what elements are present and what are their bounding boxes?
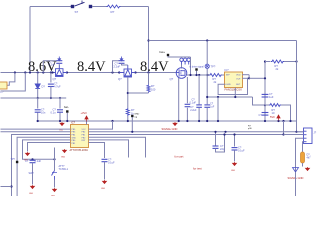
wire R-pulldown to H5 <box>127 116 129 121</box>
junction link x32 <box>31 158 33 160</box>
wire bat+ to coil <box>168 56 173 57</box>
wire cap1 to H4 <box>50 87 52 99</box>
connector J1 pins <box>304 131 307 142</box>
capacitor C-right2 <box>262 113 269 116</box>
capacitor C-br1 <box>213 146 219 148</box>
junction x148 y40 <box>147 39 149 41</box>
resistor R-pulldown <box>126 108 129 116</box>
svg-text:8.4V: 8.4V <box>140 59 169 75</box>
wire Q3 right down <box>186 77 188 103</box>
wire R-M2 bottom lead <box>148 92 150 94</box>
switch SW2 body <box>52 171 58 180</box>
junction pl3 y186 <box>10 185 12 187</box>
wire left edge y186 <box>1 186 12 188</box>
wire y61 branch <box>265 61 271 63</box>
wire 3V3 stub <box>86 122 88 125</box>
wire H2 y40 <box>149 40 297 42</box>
mosfet M1 body <box>53 65 68 77</box>
junction H5 x264 <box>264 120 266 122</box>
capacitor C-mid1 <box>196 105 202 107</box>
mosfet Q3 body <box>176 68 187 79</box>
ground red bl1 <box>31 185 34 188</box>
junction rail1 x215 <box>214 131 216 133</box>
capacitor C-left2 <box>35 110 41 112</box>
fuse F1 body <box>0 82 7 89</box>
svg-text:0.1uF: 0.1uF <box>35 159 42 163</box>
wire x296 vertical <box>296 41 298 122</box>
junction x296 y61 <box>295 60 297 62</box>
wire M2 gate to rail <box>113 61 119 73</box>
wire x234 branch <box>234 135 236 147</box>
svg-text:C?: C? <box>25 159 29 163</box>
wire IC2 pr1 <box>89 121 113 129</box>
svg-text:+3V3: +3V3 <box>81 111 88 115</box>
svg-text:GND: GND <box>61 157 66 159</box>
svg-text:GND: GND <box>59 130 64 132</box>
svg-text:SET: SET <box>236 84 241 86</box>
junction rail x112 <box>111 71 113 73</box>
wire C-M1 to M1 top <box>58 63 60 65</box>
wire C-M2 to M2 top <box>122 63 128 65</box>
wire x207 lower <box>206 108 208 121</box>
capacitor C-M1 <box>56 61 62 64</box>
zener D1 <box>35 84 40 89</box>
wire bat- to H5 <box>66 113 68 122</box>
wire U1 right pin2 <box>242 77 249 79</box>
svg-text:TP?: TP? <box>11 158 16 161</box>
ground red under rail x61 <box>60 122 63 125</box>
wire R1 to corner <box>121 6 149 8</box>
wire IC2 pr3 rail2 <box>89 134 304 136</box>
wire x218 vertical <box>217 97 219 121</box>
svg-text:0.1uF: 0.1uF <box>190 102 197 105</box>
junction rail x50 <box>50 71 52 73</box>
wire IC2 pr4 <box>89 137 146 157</box>
wire IC2 pl4 <box>17 137 70 196</box>
junction rail x14 <box>14 71 16 73</box>
wire IC2 pl2 <box>1 131 71 133</box>
arrow into C-M2 <box>120 57 122 61</box>
wire x215 branch <box>215 132 217 146</box>
wire IC2 pl5 <box>23 140 71 159</box>
junction rail1 x296 <box>295 131 297 133</box>
wire x198 lower <box>198 108 200 121</box>
testpoint TP1 circle <box>205 64 209 68</box>
resistor R-top-right <box>271 60 284 63</box>
inductor L1 loops <box>180 58 191 64</box>
junction y74.5 x207 <box>206 74 208 76</box>
junction x264 y77.8 <box>264 77 266 79</box>
svg-text:GND: GND <box>29 193 34 195</box>
svg-text:Q?: Q? <box>118 77 122 81</box>
wire tx terminal stub <box>196 71 198 75</box>
wire U1 bottom pin <box>234 88 236 98</box>
wire J1 pin3 <box>296 138 304 175</box>
terminal sig gnd <box>131 115 133 117</box>
ic U1 pin labels <box>226 75 241 86</box>
wire cap3 to H5 <box>59 113 61 122</box>
wire R-top-right to x296 <box>284 61 297 63</box>
svg-text:INP: INP <box>226 75 230 77</box>
junction rail1 x131 <box>131 131 133 133</box>
svg-text:S?: S? <box>75 10 79 14</box>
junction rail x25 <box>24 71 26 73</box>
ic IC2 body <box>71 125 89 148</box>
svg-text:Q?: Q? <box>170 77 174 81</box>
svg-text:1uF: 1uF <box>210 106 215 109</box>
wire M2 source down <box>127 77 129 108</box>
junction H5 x66 <box>66 120 68 122</box>
wire R-right2 to H5 <box>281 105 291 121</box>
wire IC2 pr5 <box>89 140 129 158</box>
svg-text:bat+: bat+ <box>160 50 166 54</box>
wire x264 to R-right2 <box>265 104 269 106</box>
wire left vertical of loop <box>29 7 31 73</box>
svg-text:IC?: IC? <box>225 68 230 72</box>
junction H5 x37 <box>37 120 39 122</box>
capacitor C-M2 <box>119 61 125 64</box>
wire right vertical x148 <box>148 7 150 73</box>
svg-text:4k7: 4k7 <box>307 157 312 160</box>
svg-text:4.7uF: 4.7uF <box>54 85 61 89</box>
wire H4 rail left <box>1 97 67 99</box>
capacitor C-left1 <box>48 84 54 86</box>
svg-text:10n: 10n <box>41 111 46 115</box>
wire x264 vertical <box>264 62 266 122</box>
svg-text:SIGNAL GND: SIGNAL GND <box>162 127 178 131</box>
junction rail x148 <box>147 71 149 73</box>
wire led to gnd <box>302 163 304 167</box>
terminal bat- <box>66 110 68 112</box>
junction H4 x50 <box>50 97 52 99</box>
junction H5 x112 <box>111 120 113 122</box>
junction H5 x187 <box>186 120 188 122</box>
wire rail branch 2 to left edge <box>1 73 26 92</box>
junction rail1 x225 <box>224 131 226 133</box>
wire U1 right pin1 <box>242 74 249 76</box>
junction y105 x264 <box>264 104 266 106</box>
junction M1 left <box>51 71 53 73</box>
wire coil top bar <box>173 56 191 58</box>
capacitor C-uart <box>102 159 108 161</box>
junction H5 x218 <box>217 120 219 122</box>
ground red IC2 bottom <box>63 149 66 152</box>
wire x187 lower <box>186 108 188 121</box>
junction rail x29 <box>29 71 31 73</box>
wire R-IC1 to IC1 <box>222 74 225 76</box>
svg-text:Q?: Q? <box>53 77 57 81</box>
wire coil leg to Q3 <box>181 65 183 68</box>
wire U1 to x264 <box>249 77 265 79</box>
svg-text:5V0: 5V0 <box>270 115 275 119</box>
wire IC2 pl3 <box>12 135 71 197</box>
wire J1 pin4 <box>303 142 304 152</box>
capacitor C-left3 <box>57 110 63 112</box>
ic U1 body <box>225 72 243 88</box>
wire SW bottom <box>54 180 56 188</box>
junction x264 y61 <box>264 60 266 62</box>
svg-text:100: 100 <box>151 87 156 91</box>
wire zener branch <box>37 73 39 84</box>
junction H4 x37 <box>37 97 39 99</box>
svg-text:GND: GND <box>72 137 77 139</box>
arrow 3V3 <box>85 116 88 121</box>
svg-text:GND: GND <box>226 84 231 86</box>
wire x283 to rail2 <box>283 121 285 135</box>
junction H4b x234 <box>234 96 236 98</box>
wire rail2 to J1 pin2 <box>284 134 304 136</box>
wire sig link down <box>131 117 133 132</box>
junction rail2 x234 <box>233 133 235 135</box>
junction rail x135 <box>134 71 136 73</box>
svg-text:2.2uF: 2.2uF <box>49 63 56 67</box>
svg-text:OUT: OUT <box>236 78 241 80</box>
junction rail x42 <box>42 71 44 73</box>
svg-text:bat-: bat- <box>64 105 69 109</box>
wire 8.x rail <box>1 72 187 74</box>
wire cap3 branch <box>59 98 61 109</box>
wire R-M2 top lead <box>148 73 150 85</box>
wire x296 to rail1 <box>296 121 298 132</box>
connector J1 body <box>304 128 313 144</box>
wire rail1 to J1 pin1 <box>297 131 304 133</box>
junction rail x118 <box>118 71 120 73</box>
led D2 body <box>301 152 305 163</box>
wire U1 right join <box>248 75 250 79</box>
junction H4b x207 <box>206 96 208 98</box>
junction H4b x218 <box>217 96 219 98</box>
wire top-left horizontal <box>30 6 72 8</box>
svg-text:R?: R? <box>111 10 115 14</box>
junction y74.5 x198 <box>198 74 200 76</box>
mosfet M2 body <box>119 65 135 77</box>
wire switch to R1 <box>92 6 107 8</box>
ground triangle right <box>293 168 299 173</box>
wire U1 pin2 loop <box>218 78 249 94</box>
wire y74.5 Q3 to R-IC1 <box>187 74 210 76</box>
svg-text:VDD: VDD <box>236 75 241 77</box>
junction y74.5 x196 <box>195 74 197 76</box>
wire zener to H4 <box>37 89 39 99</box>
wire TP1 down <box>206 68 208 104</box>
wire cap1 branch top <box>50 73 52 83</box>
wire coil right leg <box>190 57 192 75</box>
junction rail x37 <box>37 71 39 73</box>
svg-text:0.1uF: 0.1uF <box>108 161 115 165</box>
arrow 5V0 <box>277 115 280 120</box>
resistor R-IC1 <box>209 74 222 77</box>
capacitor C-br2 <box>232 148 238 150</box>
svg-text:for uart: for uart <box>175 155 184 159</box>
arrow into C-M1 <box>58 57 60 61</box>
svg-text:2.2uF: 2.2uF <box>190 109 197 112</box>
svg-text:GND: GND <box>134 114 139 116</box>
wire x198 cap lead <box>198 75 200 104</box>
junction rail2 x283 <box>282 133 284 135</box>
wire x295 to bottom <box>295 172 297 197</box>
resistor R1 <box>107 5 121 8</box>
junction H5 x283 <box>282 120 284 122</box>
svg-text:GND: GND <box>101 188 106 190</box>
junction y74.5 x190 <box>189 74 191 76</box>
wire Q3 source-left down <box>178 78 180 121</box>
wire C-br1 to rail2 <box>216 135 225 153</box>
capacitor C-mid0 <box>185 104 191 106</box>
wire y92.5 to R-M2 <box>128 92 149 94</box>
ground red bl2 <box>53 188 56 191</box>
svg-text:for test: for test <box>193 166 202 170</box>
terminal TP bottom-left <box>16 161 18 163</box>
junction U1 right <box>248 77 250 79</box>
junction H5 x207 <box>206 120 208 122</box>
junction link x54 <box>53 158 55 160</box>
junction H5 x59 <box>59 120 61 122</box>
capacitor C-right1 <box>262 94 269 97</box>
capacitor C-bl1 <box>30 160 36 162</box>
wire rail to fuse <box>7 73 15 86</box>
wire cap-bl bottom <box>32 163 34 185</box>
svg-text:2.2uF: 2.2uF <box>114 65 121 69</box>
junction H5 x290 <box>289 120 291 122</box>
ground red uart <box>103 180 106 183</box>
ground red pl6 <box>26 152 29 155</box>
junction H5 x127 <box>127 120 129 122</box>
terminal tx drive <box>195 68 197 70</box>
resistor R-M2 <box>147 84 150 92</box>
svg-text:tx drive signal: tx drive signal <box>190 65 205 68</box>
wire IC2 pl6 <box>28 143 71 152</box>
wire x252 corner <box>253 97 266 105</box>
wire IC2 pr2 rail1 <box>89 131 304 133</box>
svg-text:8.4V: 8.4V <box>77 59 106 75</box>
junction H5 x198 <box>198 120 200 122</box>
svg-text:0.1uF: 0.1uF <box>238 149 245 153</box>
svg-text:1uF: 1uF <box>269 95 274 99</box>
terminal bat+ <box>167 54 169 56</box>
wire IC2 pl1 <box>1 128 71 130</box>
junction M2 source y92 <box>127 92 129 94</box>
svg-text:0.1u: 0.1u <box>51 111 57 115</box>
svg-text:SW?: SW? <box>29 172 35 175</box>
switch S1 <box>71 1 91 8</box>
junction H4 x59 <box>59 97 61 99</box>
svg-text:TP?: TP? <box>211 64 216 68</box>
junction rail2 x224 <box>223 133 225 135</box>
junction x207 y40 <box>206 39 208 41</box>
wire cap2 branch <box>37 98 39 109</box>
resistor R-right2 <box>269 104 281 107</box>
wire Q3 drain top <box>181 67 183 70</box>
svg-text:VCC: VCC <box>82 129 87 131</box>
ic IC2 pin labels <box>72 129 87 145</box>
svg-text:ATTINY85-20SU: ATTINY85-20SU <box>70 149 89 152</box>
wire IC2 pr6 <box>89 143 105 159</box>
junction H5 x278 <box>277 120 279 122</box>
ground red br <box>233 162 236 165</box>
svg-text:D?: D? <box>42 85 46 89</box>
wire C-uart to gnd <box>104 162 106 180</box>
capacitor C-mid2 <box>204 105 210 107</box>
wire cap2 to H5 <box>37 113 39 122</box>
svg-text:FAN3100CSX: FAN3100CSX <box>225 88 243 92</box>
wire M1 gate to rail <box>43 61 56 73</box>
junction H5 x178 <box>178 120 180 122</box>
svg-text:TCSW-1: TCSW-1 <box>59 168 69 171</box>
wire H4b <box>207 96 252 98</box>
wire SW top <box>54 148 56 171</box>
svg-text:GND: GND <box>51 196 56 197</box>
svg-text:IC?: IC? <box>71 121 76 125</box>
ground red signal x174 <box>173 122 176 125</box>
ground red right <box>306 167 309 170</box>
wire TP1 from H2 <box>206 41 208 65</box>
wire H5 rail <box>37 120 297 122</box>
wire C-br2 bottom <box>234 150 236 161</box>
svg-text:GND: GND <box>231 170 236 172</box>
svg-text:C?: C? <box>259 113 263 117</box>
junction rail x66 <box>66 71 68 73</box>
